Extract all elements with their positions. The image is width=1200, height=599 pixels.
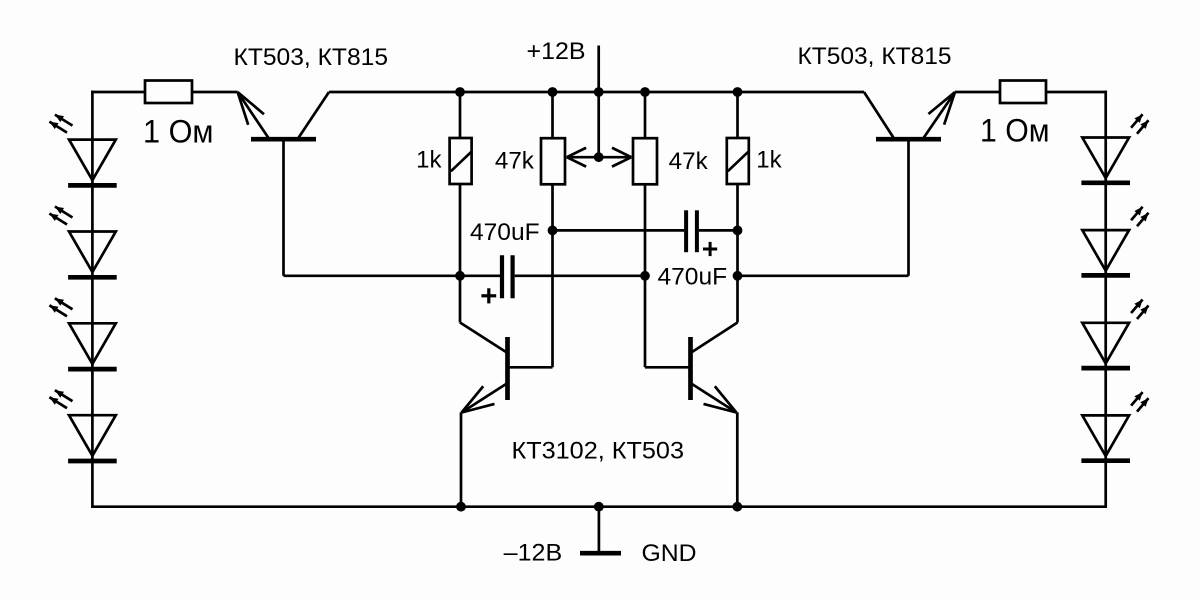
wire: rail to 47k right (644, 92, 647, 138)
node: 47k-right / base wire junction (640, 271, 650, 281)
label 1k (right) (756, 146, 782, 173)
transistor Q1 collector (298, 92, 329, 139)
wire: 47k right down to Q4 base (644, 184, 647, 367)
node: 1k-right / C2 junction (733, 226, 743, 236)
label 1k (left) (416, 146, 442, 173)
wire: top rail (+12V) (329, 91, 864, 94)
svg-text:1 Ом: 1 Ом (143, 114, 214, 150)
wire: right LED chain vertical (1104, 91, 1107, 507)
wire: top-right from Q2 emitter to resistor (955, 91, 1000, 94)
svg-text:+12В: +12В (527, 38, 586, 65)
wire: Q4 emitter down (736, 412, 739, 506)
wire: 1k left down to base wire and Q3 collector (459, 184, 462, 323)
LED D6 emission arrows (1131, 207, 1148, 227)
wire: C2 to 1k right (699, 229, 738, 232)
label KT503, KT815 (right) (798, 43, 952, 70)
wire: bottom rail (-12V) (91, 505, 1107, 508)
wire: resistor to Q1 emitter (192, 91, 238, 94)
capacitor C1 plus sign (481, 288, 496, 303)
LED D7 emission arrows (1131, 300, 1148, 320)
potentiometer wiper arrows (567, 148, 632, 167)
transistor Q1 emitter with arrow (238, 92, 269, 138)
node: rail dots (455, 87, 742, 97)
capacitor C2 plates (686, 210, 697, 252)
capacitor C2 plus sign (703, 242, 717, 256)
resistor 1k (right) body (727, 138, 749, 184)
wire: Q3 base node to C2 (553, 229, 685, 232)
LED D3 (left chain) (68, 323, 117, 369)
label KT3102, KT503 (512, 437, 685, 464)
transistor Q1 base bar (251, 137, 316, 142)
transistor Q3 emitter with arrow (462, 383, 508, 412)
svg-text:47k: 47k (495, 148, 535, 175)
label 47k (right) (669, 148, 709, 175)
LED D1 emission arrows (49, 115, 72, 133)
LED D4 emission arrows (49, 390, 72, 408)
svg-text:КТ3102, КТ503: КТ3102, КТ503 (512, 437, 685, 464)
wire: rail to 47k left (551, 92, 554, 138)
label 470uF (right) (658, 264, 728, 291)
node: 1k-right / Q2 base wire junction (733, 271, 743, 281)
capacitor C1 plates (502, 255, 513, 298)
resistor 47k (left) body (541, 138, 565, 184)
LED D5 emission arrows (1131, 114, 1148, 134)
label 47k (left) (495, 148, 535, 175)
wire: Q1 base to C1 (284, 274, 501, 277)
wire: left LED chain vertical (91, 91, 94, 507)
resistor 1k (left) body (450, 138, 472, 184)
node: 1k-left / base wire junction (455, 271, 465, 281)
svg-text:470uF: 470uF (470, 219, 540, 246)
svg-text:470uF: 470uF (658, 264, 728, 291)
node: wiper dot (594, 152, 604, 162)
LED D6 (right chain) (1081, 230, 1130, 275)
transistor Q4 collector diagonal (692, 323, 738, 353)
wire: resistor to right LED chain (1046, 91, 1107, 94)
svg-text:GND: GND (642, 540, 697, 567)
LED D5 (right chain) (1081, 138, 1130, 183)
wire: top-left from LED chain to resistor (91, 91, 145, 94)
wire: Q1 base down (282, 139, 285, 276)
label 1 Om (left) (143, 114, 214, 150)
ground symbol bar (580, 551, 621, 556)
svg-text:1 Ом: 1 Ом (980, 112, 1050, 148)
wire: rail to 1k left (459, 92, 462, 138)
LED D1 (left chain) (68, 140, 117, 186)
svg-text:–12В: –12В (504, 539, 563, 566)
label 1 Om (right) (980, 112, 1050, 148)
transistor Q3 base lead (509, 366, 553, 369)
svg-text:КТ503, КТ815: КТ503, КТ815 (798, 43, 952, 70)
label KT503, KT815 (left) (234, 44, 389, 71)
wire: 1k-right node to Q2 base (738, 274, 909, 277)
wire: Q2 base down (907, 139, 910, 276)
transistor Q2 emitter with arrow (924, 92, 956, 138)
resistor 1 Om (left) body (145, 81, 192, 104)
wire: Q3 emitter down (460, 412, 463, 506)
resistor 47k (right) body (633, 138, 657, 184)
label 470uF (left) (470, 219, 540, 246)
LED D8 emission arrows (1131, 392, 1148, 412)
svg-text:1k: 1k (756, 146, 782, 173)
transistor Q3 collector diagonal (460, 323, 506, 353)
transistor Q2 collector (864, 92, 894, 139)
LED D8 (right chain) (1081, 415, 1130, 460)
wire: +12V stub (597, 46, 600, 158)
transistor Q2 base bar (876, 137, 941, 142)
label +12V (527, 38, 586, 65)
LED D3 emission arrows (49, 298, 72, 316)
transistor Q3 base bar (505, 337, 510, 400)
transistor Q4 base lead (645, 366, 689, 369)
wire: 1k right down to Q4 collector (736, 184, 739, 323)
svg-text:47k: 47k (669, 148, 709, 175)
label GND (642, 540, 697, 567)
wire: C1 to Q4 base node (515, 274, 645, 277)
wire: rail to 1k right (736, 92, 739, 138)
svg-text:1k: 1k (416, 146, 442, 173)
transistor Q4 base bar (688, 337, 693, 400)
node: 47k-left / C2 junction (548, 226, 558, 236)
transistor Q4 emitter with arrow (691, 383, 737, 412)
label -12V (504, 539, 563, 566)
LED D2 emission arrows (49, 207, 72, 225)
wire: 47k left down to Q3 base (551, 184, 554, 367)
resistor 1 Om (right) body (1000, 81, 1046, 104)
LED D4 (left chain) (68, 415, 117, 461)
ground stub (598, 507, 601, 551)
LED D7 (right chain) (1081, 323, 1130, 368)
LED D2 (left chain) (68, 232, 117, 278)
svg-text:КТ503, КТ815: КТ503, КТ815 (234, 44, 389, 71)
node: bottom rail dots (456, 502, 742, 512)
